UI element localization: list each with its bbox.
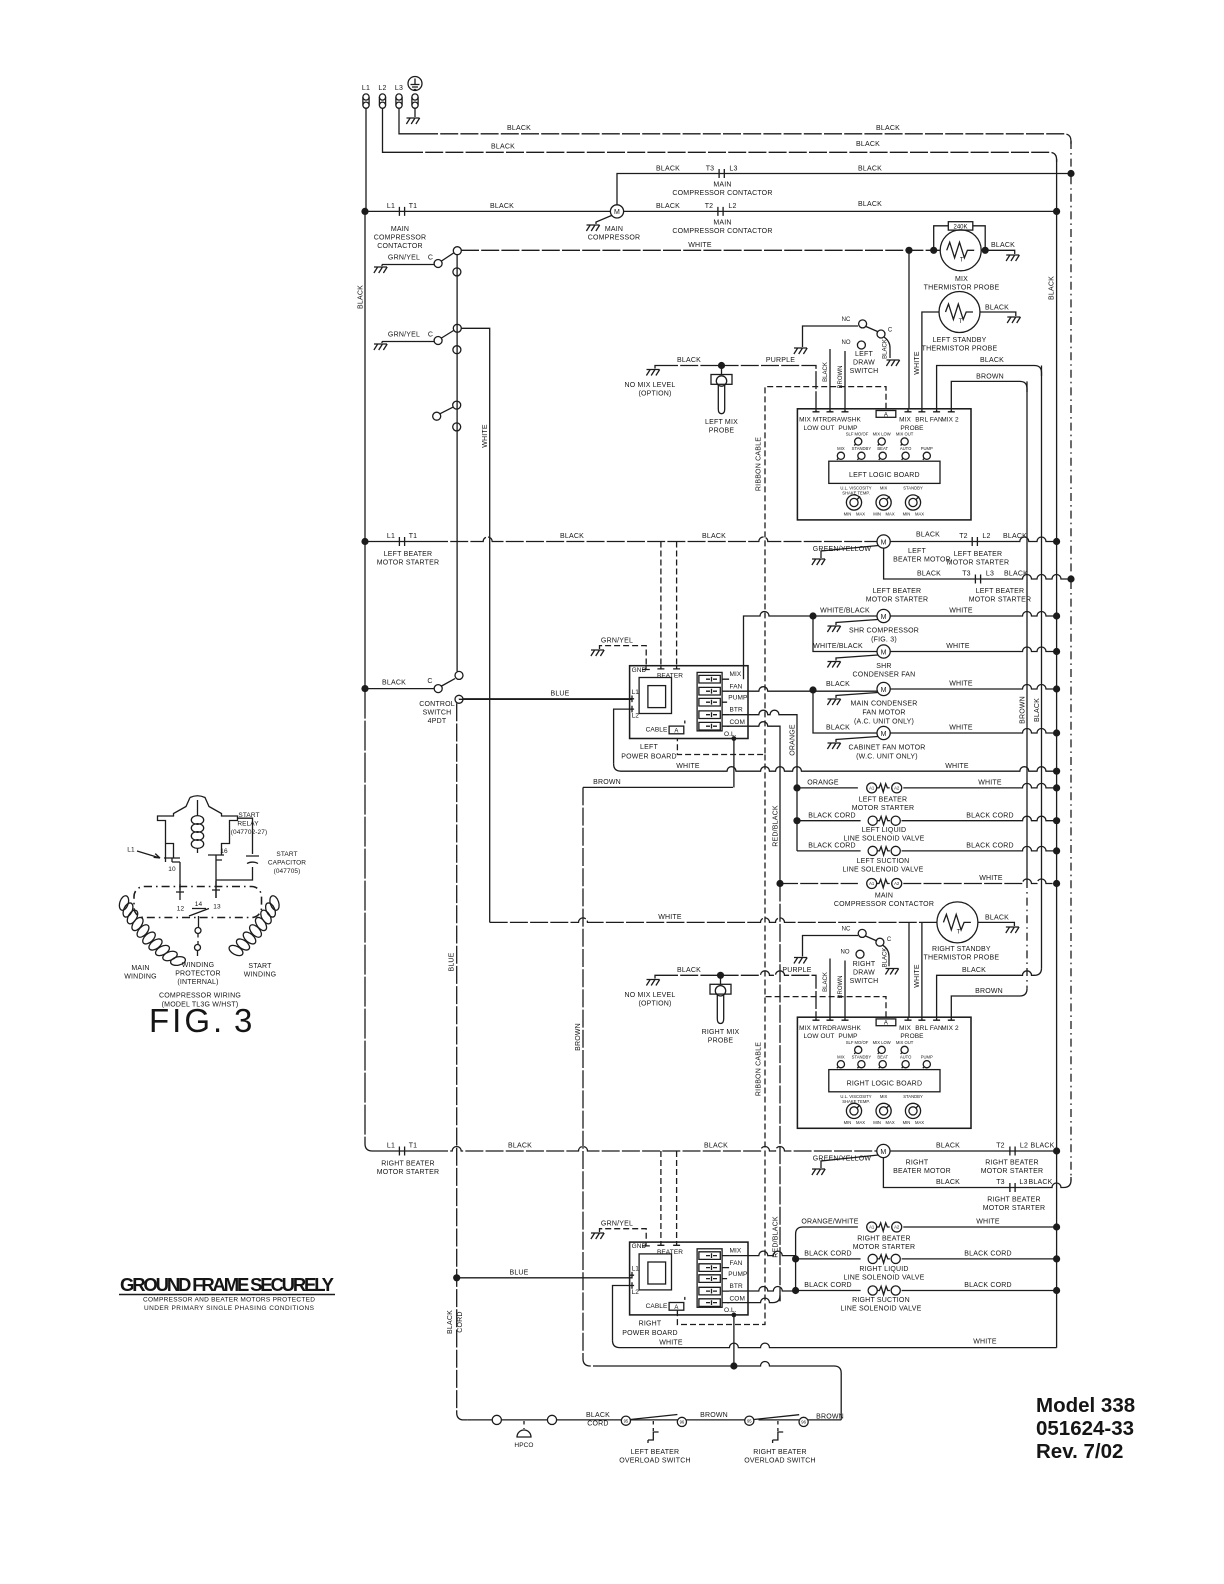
- svg-text:L3: L3: [729, 166, 737, 173]
- wire bottom brown row: [594, 1362, 841, 1420]
- wire bus B turn to right logic BLACK: [937, 968, 1042, 1017]
- svg-text:10: 10: [168, 866, 176, 873]
- svg-text:T3: T3: [996, 1179, 1005, 1186]
- wire BLUE vertical / BLACK CORD drop: [457, 703, 468, 1420]
- svg-text:BLACK: BLACK: [491, 144, 515, 151]
- svg-text:WHITE/BLACK: WHITE/BLACK: [820, 608, 870, 615]
- svg-text:COMPRESSOR WIRING: COMPRESSOR WIRING: [159, 993, 241, 1000]
- svg-text:CONTROL: CONTROL: [419, 701, 455, 708]
- svg-text:T3: T3: [706, 166, 715, 173]
- junction white row 240K tap: [930, 247, 937, 254]
- svg-text:LINE SOLENOID VALVE: LINE SOLENOID VALVE: [843, 867, 924, 874]
- svg-text:BLACK CORD: BLACK CORD: [966, 812, 1014, 819]
- svg-text:COMPRESSOR CONTACTOR: COMPRESSOR CONTACTOR: [834, 901, 934, 908]
- svg-text:MAIN: MAIN: [713, 182, 731, 189]
- svg-text:BLACK CORD: BLACK CORD: [808, 843, 856, 850]
- svg-text:WHITE: WHITE: [976, 1219, 1000, 1226]
- svg-text:L1: L1: [387, 533, 395, 540]
- svg-text:ORANGE/WHITE: ORANGE/WHITE: [801, 1219, 858, 1226]
- control switch 4PDT: [365, 671, 463, 725]
- wire T2 row motor right: [624, 210, 1057, 212]
- svg-text:BLACK: BLACK: [447, 1310, 454, 1334]
- svg-text:ORANGE: ORANGE: [807, 780, 839, 787]
- overload left heater symbol: [652, 1421, 654, 1431]
- ground grn/yel right power board: [591, 1233, 604, 1239]
- ground left standby: [1007, 317, 1020, 323]
- svg-text:BLACK: BLACK: [980, 357, 1004, 364]
- svg-text:BEATER MOTOR: BEATER MOTOR: [893, 557, 951, 564]
- svg-text:POWER BOARD: POWER BOARD: [622, 1330, 677, 1337]
- svg-text:RIGHT BEATER: RIGHT BEATER: [987, 1197, 1040, 1204]
- wire right brl drop: [921, 922, 923, 1017]
- left draw switch: [803, 317, 893, 358]
- wire SHR condenser fan row: [813, 616, 1057, 652]
- op board RIGHT POWER: [630, 1242, 748, 1315]
- svg-text:RIGHT BEATER: RIGHT BEATER: [381, 1161, 434, 1168]
- motor SHR condenser fan M: [877, 645, 890, 658]
- wire left beater row: [365, 541, 430, 543]
- svg-text:BLUE: BLUE: [449, 952, 456, 971]
- svg-text:BLACK: BLACK: [917, 571, 941, 578]
- wire main compressor row: [365, 210, 611, 212]
- terminal L1: [363, 94, 369, 108]
- wire COM to red/black vertical: [727, 722, 780, 884]
- svg-text:L2: L2: [378, 85, 386, 92]
- svg-text:WHITE: WHITE: [659, 1339, 683, 1346]
- wire right black cord row 2: [796, 1290, 861, 1292]
- wire draw to logic BROWN: [844, 351, 846, 409]
- svg-text:LEFT SUCTION: LEFT SUCTION: [857, 858, 910, 865]
- svg-text:C: C: [888, 328, 893, 334]
- junction L1 row: [361, 208, 368, 215]
- wire right black cord row 1: [796, 1258, 861, 1260]
- svg-text:T2: T2: [959, 533, 968, 540]
- compressor shell dash-dot box: [134, 887, 262, 918]
- svg-text:WHITE: WHITE: [979, 875, 1003, 882]
- wire T3 row from motor up: [617, 174, 1071, 205]
- svg-text:(047705): (047705): [274, 868, 301, 875]
- svg-text:CAPACITOR: CAPACITOR: [268, 860, 306, 867]
- svg-text:MAIN: MAIN: [713, 220, 731, 227]
- junction contactor row bus C: [1053, 880, 1060, 887]
- svg-text:MOTOR STARTER: MOTOR STARTER: [852, 805, 915, 812]
- svg-text:FIG.: FIG.: [149, 1002, 225, 1039]
- svg-text:14: 14: [195, 901, 203, 908]
- thermistor RIGHT STANDBY: [937, 902, 978, 943]
- overload left contact 96: [677, 1417, 686, 1426]
- junction shr row bus C: [1053, 612, 1060, 619]
- svg-text:MIX: MIX: [955, 276, 968, 283]
- svg-text:BLACK CORD: BLACK CORD: [964, 1282, 1012, 1289]
- wire O.L drop to brown row: [733, 738, 735, 788]
- winding protector contacts: [198, 916, 200, 927]
- svg-text:BLACK: BLACK: [991, 242, 1015, 249]
- svg-text:WHITE: WHITE: [914, 964, 921, 988]
- svg-text:COMPRESSOR: COMPRESSOR: [588, 235, 641, 242]
- thermistor LEFT STANDBY: [939, 292, 980, 333]
- svg-text:BLACK: BLACK: [936, 1143, 960, 1150]
- svg-text:BROWN: BROWN: [976, 374, 1004, 381]
- svg-text:BLACK: BLACK: [586, 1412, 610, 1419]
- svg-text:RIGHT: RIGHT: [639, 1321, 662, 1328]
- switch GRN/YEL 1: [382, 247, 461, 276]
- svg-text:BLACK: BLACK: [702, 533, 726, 540]
- svg-text:FAN MOTOR: FAN MOTOR: [862, 710, 905, 717]
- svg-text:COMPRESSOR CONTACTOR: COMPRESSOR CONTACTOR: [672, 190, 772, 197]
- svg-text:WHITE: WHITE: [914, 351, 921, 375]
- svg-text:WHITE: WHITE: [973, 1338, 997, 1345]
- wire BLACK to bus B: [937, 366, 1042, 410]
- wire black cord row 1 right: [902, 816, 1057, 821]
- contact T3 L3: [962, 571, 994, 584]
- wire white drop from switch 2: [461, 328, 489, 922]
- earth symbol in circle: [408, 77, 422, 91]
- switch 3: [433, 401, 461, 431]
- svg-text:RIGHT: RIGHT: [853, 961, 876, 968]
- svg-text:LEFT BEATER: LEFT BEATER: [384, 551, 433, 558]
- terminal 12: [176, 884, 184, 900]
- motor SHR compressor M: [877, 609, 890, 622]
- ground mix thermistor: [1006, 255, 1019, 261]
- svg-text:BLACK: BLACK: [883, 948, 889, 968]
- op board LEFT LOGIC: [797, 409, 971, 520]
- ground: [406, 118, 419, 124]
- svg-text:NO: NO: [842, 340, 851, 346]
- svg-text:MOTOR STARTER: MOTOR STARTER: [377, 560, 440, 567]
- svg-text:MAIN CONDENSER: MAIN CONDENSER: [851, 701, 918, 708]
- wire purple row right: [660, 971, 816, 1017]
- junction left bus beater row: [361, 538, 368, 545]
- coil main compressor contactor A1 A2: [867, 879, 902, 889]
- junction white row mix probe tap: [905, 247, 912, 254]
- svg-text:MAIN: MAIN: [391, 226, 409, 233]
- svg-text:LEFT MIX: LEFT MIX: [705, 419, 738, 426]
- wire bottom row: [468, 1419, 841, 1421]
- wire COM right to red/black: [727, 1295, 780, 1302]
- svg-text:BROWN: BROWN: [1020, 696, 1027, 724]
- junction beater T2 on bus C: [1053, 538, 1060, 545]
- wire beater drops to power board: [661, 542, 677, 666]
- wire mix probe drop: [908, 250, 910, 409]
- junction main condenser bus C: [1053, 685, 1060, 692]
- svg-text:BLACK: BLACK: [382, 680, 406, 687]
- svg-text:MOTOR STARTER: MOTOR STARTER: [853, 1244, 916, 1251]
- svg-text:NO MIX LEVEL: NO MIX LEVEL: [624, 382, 675, 389]
- wire WHITE row left: [614, 764, 1057, 771]
- svg-text:BROWN: BROWN: [575, 1023, 582, 1051]
- svg-text:BLACK: BLACK: [876, 125, 900, 132]
- svg-text:GREEN/YELLOW: GREEN/YELLOW: [813, 1156, 872, 1163]
- ground cabinet fan: [836, 737, 878, 743]
- wire BROWN long vertical: [583, 787, 594, 1366]
- overload right bridge: [754, 1415, 799, 1420]
- svg-text:CORD: CORD: [457, 1311, 464, 1332]
- svg-text:NC: NC: [842, 927, 851, 933]
- svg-text:START: START: [248, 963, 272, 970]
- svg-text:(FIG. 3): (FIG. 3): [871, 637, 897, 644]
- svg-text:L1: L1: [127, 847, 135, 854]
- svg-text:RELAY: RELAY: [237, 821, 259, 828]
- svg-text:BLACK: BLACK: [856, 141, 880, 148]
- svg-text:LEFT: LEFT: [855, 351, 873, 358]
- wire left standby right leg to ground: [980, 312, 1016, 316]
- ground no mix level: [646, 370, 659, 376]
- svg-text:MOTOR STARTER: MOTOR STARTER: [947, 560, 1010, 567]
- wire L3 top black row: [399, 109, 420, 134]
- svg-text:T1: T1: [409, 1143, 418, 1150]
- svg-text:BROWN: BROWN: [816, 1414, 844, 1421]
- svg-text:LEFT STANDBY: LEFT STANDBY: [933, 337, 987, 344]
- svg-text:RED/BLACK: RED/BLACK: [773, 805, 780, 847]
- svg-text:BLACK: BLACK: [1031, 1143, 1055, 1150]
- svg-text:BLACK: BLACK: [858, 166, 882, 173]
- svg-text:BLACK: BLACK: [858, 201, 882, 208]
- svg-text:(A.C. UNIT ONLY): (A.C. UNIT ONLY): [854, 719, 914, 726]
- terminal GND: [412, 94, 418, 108]
- wire right L2 white drop: [613, 1286, 630, 1341]
- terminal L3: [396, 94, 402, 108]
- svg-text:PROBE: PROBE: [709, 428, 735, 435]
- svg-text:BROWN: BROWN: [593, 779, 621, 786]
- svg-text:SHR: SHR: [876, 663, 891, 670]
- svg-text:RIGHT BEATER: RIGHT BEATER: [857, 1236, 910, 1243]
- wire MIX stub elbow (shr feed) drawn above; wire BTR to orange vertical: [729, 710, 797, 788]
- wire bus D dash-dot: [1070, 141, 1072, 1181]
- svg-text:(W.C. UNIT ONLY): (W.C. UNIT ONLY): [856, 754, 918, 761]
- svg-text:BLACK: BLACK: [962, 967, 986, 974]
- wire right orange vertical: [796, 1227, 858, 1291]
- svg-text:LINE SOLENOID VALVE: LINE SOLENOID VALVE: [844, 1275, 925, 1282]
- svg-text:BLACK CORD: BLACK CORD: [808, 812, 856, 819]
- svg-text:BLACK CORD: BLACK CORD: [804, 1282, 852, 1289]
- svg-text:POWER BOARD: POWER BOARD: [621, 754, 676, 761]
- svg-text:MAIN: MAIN: [875, 893, 893, 900]
- svg-text:13: 13: [213, 904, 221, 911]
- svg-text:BLACK CORD: BLACK CORD: [964, 1251, 1012, 1258]
- ground no mix level right: [646, 980, 659, 986]
- junction beater T3 on dash bus: [1067, 575, 1074, 582]
- wire right beater row to bus C: [890, 1150, 1057, 1152]
- svg-text:CONTACTOR: CONTACTOR: [377, 243, 423, 250]
- coil right liquid solenoid: [868, 1254, 900, 1263]
- junction thermistor right: [982, 247, 989, 254]
- op board LEFT POWER: [630, 666, 748, 739]
- relay outline: [158, 796, 238, 898]
- junction right mix probe tap: [717, 972, 724, 979]
- contact T3 L3: [996, 1179, 1027, 1192]
- svg-text:MOTOR STARTER: MOTOR STARTER: [969, 597, 1032, 604]
- relay coil spring: [191, 800, 203, 853]
- wire orange row right: [903, 783, 1056, 788]
- wire right draw to logic BROWN: [844, 961, 846, 1018]
- wire gnd drop: [414, 109, 416, 118]
- svg-text:GRN/YEL: GRN/YEL: [601, 638, 633, 645]
- svg-text:THERMISTOR PROBE: THERMISTOR PROBE: [924, 285, 1000, 292]
- resistor 240K parallel path: [934, 226, 986, 251]
- svg-text:BLACK: BLACK: [560, 533, 584, 540]
- svg-text:BLACK: BLACK: [358, 285, 365, 309]
- wire L1 left bus: [365, 109, 366, 689]
- overload right contact 95: [745, 1416, 754, 1425]
- svg-text:C: C: [427, 678, 432, 685]
- wire left standby left leg: [922, 312, 939, 409]
- switch HPCO contact 1: [492, 1415, 501, 1424]
- svg-text:CORD: CORD: [587, 1421, 608, 1428]
- svg-text:BLACK: BLACK: [508, 1143, 532, 1150]
- thermistor MIX probe: [940, 230, 981, 271]
- svg-text:BLACK: BLACK: [1034, 698, 1041, 722]
- wire right connector stubs: [729, 1251, 796, 1291]
- svg-text:3: 3: [234, 1002, 252, 1039]
- svg-text:96: 96: [680, 1420, 685, 1425]
- svg-text:THERMISTOR PROBE: THERMISTOR PROBE: [922, 346, 998, 353]
- svg-text:COMPRESSOR CONTACTOR: COMPRESSOR CONTACTOR: [672, 228, 772, 235]
- junction shr feed: [809, 612, 816, 619]
- wire WHITE long row to right thermistor: [490, 918, 937, 923]
- svg-text:THERMISTOR PROBE: THERMISTOR PROBE: [923, 955, 999, 962]
- wire right beater T3 row: [883, 1158, 1071, 1188]
- svg-text:BLACK: BLACK: [985, 915, 1009, 922]
- junction control row on bus: [361, 685, 368, 692]
- op board RIGHT LOGIC: [797, 1017, 971, 1128]
- terminal 13: [212, 881, 220, 898]
- svg-text:RIGHT STANDBY: RIGHT STANDBY: [932, 946, 991, 953]
- motor main condenser fan M: [877, 682, 890, 695]
- junction condenser fan bus C: [1053, 648, 1060, 655]
- svg-text:BROWN: BROWN: [838, 976, 844, 999]
- wire bus A brown: [1026, 381, 1028, 880]
- right draw switch: [803, 927, 892, 967]
- svg-text:PURPLE: PURPLE: [782, 967, 811, 974]
- ground shr condenser fan: [836, 655, 878, 661]
- wire grn/yel to right gnd: [600, 1229, 647, 1242]
- svg-text:BLUE: BLUE: [550, 691, 569, 698]
- wire L2 white drop: [614, 709, 630, 764]
- svg-text:COMPRESSOR AND BEATER MOTORS: COMPRESSOR AND BEATER MOTORS PROTECTED: [143, 1297, 315, 1304]
- coil right suction solenoid: [868, 1286, 900, 1295]
- svg-text:L2: L2: [982, 533, 990, 540]
- wire right bc2 right: [902, 1290, 1057, 1292]
- wire black cord row 2 right: [902, 846, 1057, 851]
- svg-text:240K: 240K: [953, 225, 967, 231]
- svg-text:GROUND FRAME SECURELY: GROUND FRAME SECURELY: [120, 1274, 335, 1295]
- svg-text:ORANGE: ORANGE: [790, 724, 797, 756]
- svg-text:WHITE: WHITE: [945, 763, 969, 770]
- svg-text:051624-33: 051624-33: [1036, 1417, 1134, 1440]
- junction right bc1: [792, 1255, 799, 1262]
- svg-text:WHITE: WHITE: [688, 242, 712, 249]
- svg-text:BLACK: BLACK: [507, 125, 531, 132]
- svg-text:95: 95: [747, 1418, 752, 1423]
- svg-text:LEFT BEATER: LEFT BEATER: [631, 1449, 680, 1456]
- wire black cord row 2 left: [797, 850, 861, 852]
- svg-text:BLACK: BLACK: [823, 362, 829, 382]
- ground right standby: [1006, 927, 1019, 933]
- wire red/black continues to right COM: [779, 884, 781, 1302]
- junction bc1 bus C: [1053, 817, 1060, 824]
- wire WHITE row bottom: [613, 1340, 1057, 1347]
- coil left suction solenoid: [868, 846, 900, 855]
- ground main compressor: [596, 216, 612, 225]
- svg-text:BLACK CORD: BLACK CORD: [966, 843, 1014, 850]
- wire contactor row right: [903, 879, 1056, 884]
- svg-text:MOTOR STARTER: MOTOR STARTER: [983, 1205, 1046, 1212]
- svg-text:L2: L2: [728, 203, 736, 210]
- wire purple row: [660, 366, 816, 410]
- svg-text:BLACK: BLACK: [1049, 276, 1056, 300]
- junction white row bus C: [1053, 768, 1060, 775]
- wire BLUE row to left power board L1: [459, 698, 632, 701]
- svg-text:BLACK: BLACK: [704, 1143, 728, 1150]
- svg-text:PROTECTOR: PROTECTOR: [175, 971, 221, 978]
- svg-text:LINE SOLENOID VALVE: LINE SOLENOID VALVE: [844, 835, 925, 842]
- svg-text:C: C: [428, 332, 433, 339]
- svg-text:BLACK: BLACK: [936, 1179, 960, 1186]
- svg-text:BLACK: BLACK: [883, 339, 889, 359]
- svg-text:(OPTION): (OPTION): [638, 391, 671, 398]
- switch HPCO contact 2: [547, 1415, 556, 1424]
- svg-text:BLACK: BLACK: [916, 532, 940, 539]
- svg-text:LEFT BEATER: LEFT BEATER: [859, 797, 908, 804]
- ribbon cable left: [677, 387, 886, 755]
- svg-text:RIGHT SUCTION: RIGHT SUCTION: [852, 1297, 910, 1304]
- coil left liquid solenoid: [868, 816, 900, 825]
- svg-text:T1: T1: [409, 533, 418, 540]
- junction red/black contactor row: [776, 880, 783, 887]
- wire right beater drops to power board: [661, 1151, 677, 1242]
- svg-text:BLACK: BLACK: [677, 357, 701, 364]
- junction cabinet fan bus C: [1053, 729, 1060, 736]
- svg-text:CONDENSER FAN: CONDENSER FAN: [853, 672, 916, 679]
- wire bus A turn to right logic BROWN: [951, 989, 1027, 1017]
- motor main compressor M: [610, 205, 623, 218]
- svg-text:T1: T1: [409, 203, 418, 210]
- svg-text:WHITE: WHITE: [482, 424, 489, 448]
- svg-text:WHITE/BLACK: WHITE/BLACK: [813, 643, 863, 650]
- wire SHR compressor row: [744, 612, 1057, 680]
- svg-text:RIBBON CABLE: RIBBON CABLE: [756, 437, 763, 491]
- svg-text:GRN/YEL: GRN/YEL: [388, 255, 420, 262]
- svg-text:MOTOR STARTER: MOTOR STARTER: [866, 597, 929, 604]
- junction T3 row on dash bus: [1067, 170, 1074, 177]
- svg-text:Rev. 7/02: Rev. 7/02: [1036, 1440, 1123, 1463]
- svg-text:LEFT: LEFT: [908, 548, 926, 555]
- terminal 16: [208, 855, 224, 860]
- svg-text:WHITE: WHITE: [676, 763, 700, 770]
- junction orange row: [793, 784, 800, 791]
- svg-text:CABINET FAN MOTOR: CABINET FAN MOTOR: [848, 745, 925, 752]
- ground right draw switch right: [885, 969, 898, 975]
- svg-text:BLACK: BLACK: [826, 725, 850, 732]
- junction T2 row on bus C: [1053, 208, 1060, 215]
- ribbon cable continuation to right power board: [677, 755, 765, 1325]
- svg-text:LEFT BEATER: LEFT BEATER: [976, 588, 1025, 595]
- svg-text:OVERLOAD SWITCH: OVERLOAD SWITCH: [744, 1458, 815, 1465]
- svg-text:NO: NO: [841, 950, 850, 956]
- overload right heater symbol: [777, 1421, 779, 1431]
- svg-text:RIGHT MIX: RIGHT MIX: [702, 1029, 740, 1036]
- svg-text:T2: T2: [705, 203, 714, 210]
- svg-text:BLACK: BLACK: [1003, 533, 1027, 540]
- svg-text:L1: L1: [362, 85, 370, 92]
- start winding coil: [227, 895, 280, 958]
- svg-text:Model 338: Model 338: [1036, 1394, 1135, 1417]
- junction right bc2: [792, 1287, 799, 1294]
- svg-text:BROWN: BROWN: [838, 366, 844, 389]
- svg-text:(OPTION): (OPTION): [638, 1001, 671, 1008]
- wire right O.L drop: [733, 1314, 735, 1366]
- svg-text:L1: L1: [387, 203, 395, 210]
